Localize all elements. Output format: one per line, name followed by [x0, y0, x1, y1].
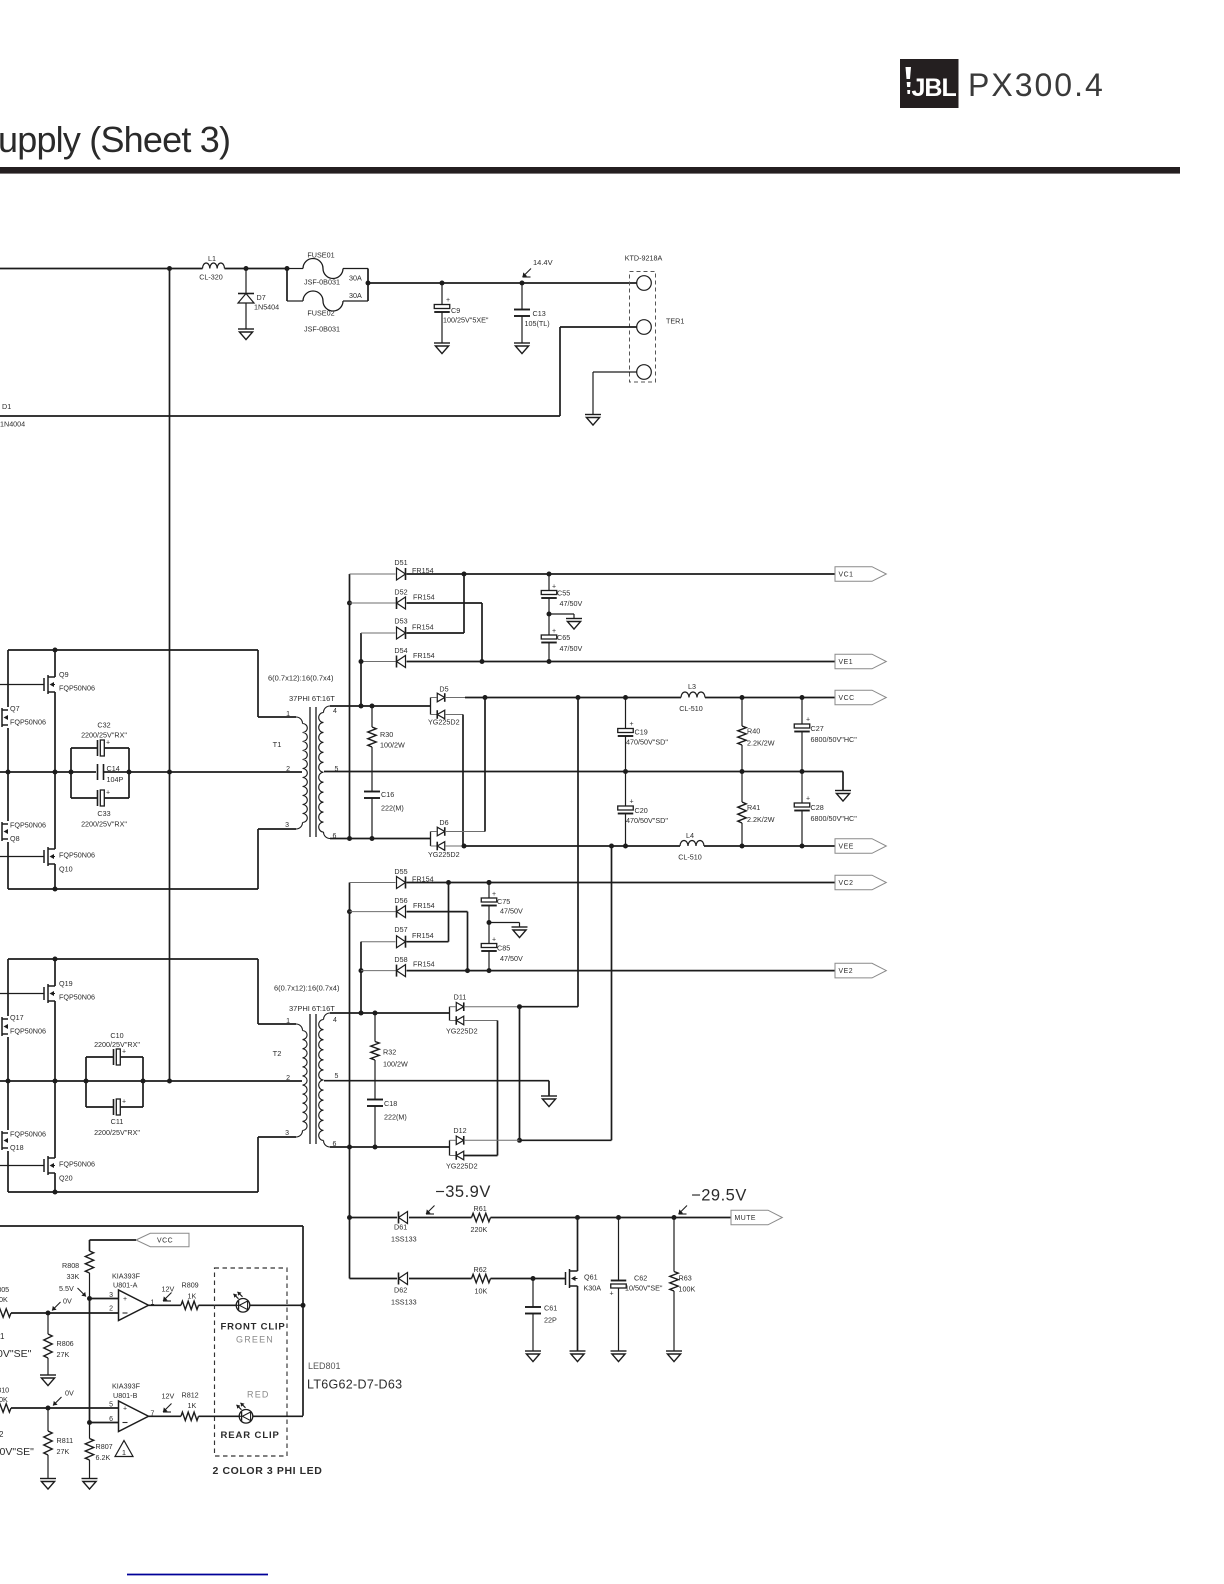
- wire 0V row: [324, 771, 843, 773]
- svg-text:4: 4: [333, 708, 337, 715]
- svg-text:VC1: VC1: [839, 572, 854, 579]
- svg-text:R812: R812: [182, 1391, 199, 1400]
- transistor Q10 FQP50N06: [0, 856, 44, 858]
- svg-text:222(M): 222(M): [384, 1113, 407, 1122]
- svg-text:2: 2: [286, 766, 290, 773]
- ground: [585, 415, 601, 426]
- svg-text:1: 1: [286, 1018, 290, 1025]
- svg-text:C13: C13: [533, 309, 546, 318]
- transistor Q18 FQP50N06: [0, 1131, 8, 1150]
- inductor L3 CL-510: [681, 692, 705, 698]
- JBL logo: [900, 59, 959, 108]
- svg-text:6(0.7x12):16(0.7x4): 6(0.7x12):16(0.7x4): [274, 984, 340, 993]
- svg-text:100/2W: 100/2W: [380, 741, 405, 750]
- diode D56 FR154: [350, 911, 396, 913]
- capacitor C9 100/25V: [440, 281, 445, 286]
- wire D56 to VE2 row: [407, 911, 468, 913]
- svg-text:C10: C10: [110, 1031, 123, 1040]
- capacitor C61 22P: [532, 1279, 534, 1308]
- svg-text:C9: C9: [451, 306, 460, 315]
- wire T2 pin5 row: [324, 1080, 549, 1082]
- svg-text:Q8: Q8: [10, 834, 20, 843]
- resistor R61 220K: [472, 1213, 491, 1221]
- resistor R809 1K: [181, 1301, 199, 1309]
- svg-text:D51: D51: [394, 558, 407, 567]
- svg-text:2: 2: [0, 1430, 4, 1439]
- svg-text:TER1: TER1: [666, 317, 684, 326]
- svg-text:105(TL): 105(TL): [525, 319, 550, 328]
- wire T2 pin4 row: [330, 1012, 450, 1014]
- svg-text:FR154: FR154: [413, 960, 435, 969]
- junction: [87, 1296, 92, 1301]
- wire VCC to D11 output vertical: [577, 698, 579, 1007]
- ground: [541, 1096, 557, 1107]
- svg-text:FQP50N06: FQP50N06: [10, 821, 46, 830]
- wire D55/D56 vertical: [349, 883, 351, 1279]
- capacitor C28 6800/50V: [801, 772, 803, 804]
- svg-text:2: 2: [286, 1075, 290, 1082]
- svg-text:6800/50V"HC": 6800/50V"HC": [811, 735, 858, 744]
- svg-text:37PHI 6T:16T: 37PHI 6T:16T: [289, 694, 335, 703]
- transistor Q19 FQP50N06: [0, 993, 44, 995]
- svg-text:R806: R806: [57, 1339, 74, 1348]
- LED FRONT CLIP green: [236, 1299, 250, 1313]
- svg-text:47/50V: 47/50V: [500, 954, 523, 963]
- svg-text:5: 5: [335, 1073, 339, 1080]
- svg-text:FUSE01: FUSE01: [307, 251, 334, 260]
- svg-text:470/50V"SD": 470/50V"SD": [626, 816, 668, 825]
- junction: [285, 266, 290, 271]
- svg-text:R811: R811: [57, 1436, 74, 1445]
- wire 0V to ground: [842, 772, 844, 791]
- svg-text:FQP50N06: FQP50N06: [59, 993, 95, 1002]
- svg-text:D62: D62: [394, 1286, 407, 1295]
- svg-text:27K: 27K: [57, 1350, 70, 1359]
- svg-text:3: 3: [285, 1130, 289, 1137]
- svg-text:D5: D5: [439, 685, 448, 694]
- svg-text:C75: C75: [497, 897, 510, 906]
- wire op-amp A output: [149, 1304, 181, 1306]
- svg-text:FQP50N06: FQP50N06: [59, 851, 95, 860]
- svg-text:PX300.4: PX300.4: [968, 67, 1105, 103]
- svg-text:R32: R32: [383, 1048, 396, 1057]
- svg-text:C33: C33: [97, 809, 110, 818]
- wire VE1 row: [407, 661, 836, 663]
- wire TER1 pin2 to D1 row: [560, 326, 637, 328]
- svg-text:+: +: [629, 799, 633, 806]
- svg-text:FR154: FR154: [413, 593, 435, 602]
- svg-text:D61: D61: [394, 1223, 407, 1232]
- wire D53/D54 vertical: [360, 633, 362, 706]
- svg-text:KIA393F: KIA393F: [112, 1272, 141, 1281]
- capacitor C55 47/50V: [548, 574, 550, 591]
- svg-text:47/50V: 47/50V: [560, 599, 583, 608]
- svg-text:0V"SE": 0V"SE": [0, 1348, 32, 1360]
- connector VC2: [835, 875, 886, 890]
- svg-text:R807: R807: [96, 1442, 113, 1451]
- svg-text:C55: C55: [557, 589, 570, 598]
- wire D11/D12 output link: [519, 1007, 521, 1141]
- svg-text:C11: C11: [111, 1117, 124, 1126]
- wire C75/C85 midpoint to ground: [489, 922, 520, 924]
- capacitor C11 2200/25V: [86, 1106, 113, 1108]
- svg-text:JSF-0B031: JSF-0B031: [304, 278, 340, 287]
- wire T1 bottom row: [8, 888, 258, 890]
- svg-text:Q10: Q10: [59, 865, 73, 874]
- svg-text:C62: C62: [634, 1274, 647, 1283]
- diode D54 FR154: [361, 661, 396, 663]
- wire T1 pin4 row: [330, 705, 431, 707]
- svg-text:37PHI 6T:16T: 37PHI 6T:16T: [289, 1004, 335, 1013]
- LED REAR CLIP red: [239, 1410, 253, 1424]
- svg-text:D57: D57: [394, 925, 407, 934]
- capacitor C16 222(M): [371, 747, 373, 792]
- svg-text:12V: 12V: [162, 1392, 175, 1401]
- svg-text:12V: 12V: [162, 1285, 175, 1294]
- capacitor C14 104P: [98, 764, 104, 780]
- svg-text:10/50V"SE": 10/50V"SE": [625, 1284, 663, 1293]
- svg-text:2.2K/2W: 2.2K/2W: [747, 815, 775, 824]
- capacitor C13 105(TL): [520, 281, 525, 286]
- wire comparator top rail: [0, 1225, 303, 1227]
- svg-text:D11: D11: [454, 993, 467, 1002]
- junction: [547, 612, 552, 617]
- svg-text:33K: 33K: [67, 1272, 80, 1281]
- wire D12 output to VEE vertical: [520, 1139, 612, 1141]
- svg-text:JSF-0B031: JSF-0B031: [304, 325, 340, 334]
- connector VE1: [835, 654, 886, 669]
- wire op-amp pin6 row: [90, 1422, 119, 1424]
- resistor R30 100/2W: [371, 706, 373, 727]
- svg-text:+: +: [492, 937, 496, 944]
- diode D7 1N5404: [245, 269, 247, 294]
- wire D53 to VC1 row: [407, 632, 465, 634]
- wire VC2 row: [407, 882, 836, 884]
- diode D55 FR154: [350, 882, 396, 884]
- svg-text:+: +: [122, 1049, 126, 1056]
- capacitor C19 470/50V: [625, 698, 627, 729]
- wire VCC flag to R808: [90, 1239, 137, 1241]
- svg-text:CL-510: CL-510: [678, 853, 702, 862]
- svg-text:30A: 30A: [349, 291, 362, 300]
- svg-text:R63: R63: [679, 1274, 692, 1283]
- ground: [40, 1479, 56, 1490]
- svg-text:1N5404: 1N5404: [254, 303, 279, 312]
- op-amp U801-A KIA393F: [119, 1290, 149, 1321]
- svg-text:REAR CLIP: REAR CLIP: [221, 1430, 280, 1441]
- svg-text:upply (Sheet 3): upply (Sheet 3): [0, 119, 230, 160]
- wire op-amp B output: [149, 1415, 181, 1417]
- junction: [244, 266, 249, 271]
- ground: [434, 343, 450, 354]
- connector VCC flag: [136, 1233, 189, 1246]
- svg-text:47/50V: 47/50V: [500, 907, 523, 916]
- svg-text:1K: 1K: [188, 1292, 197, 1301]
- svg-text:1N4004: 1N4004: [0, 420, 25, 429]
- svg-text:+: +: [629, 721, 633, 728]
- svg-text:Q17: Q17: [10, 1013, 24, 1022]
- svg-text:R41: R41: [747, 803, 760, 812]
- svg-text:L3: L3: [688, 682, 696, 691]
- fuse FUSE01 JSF-0B031 30A: [287, 268, 303, 270]
- wire D57 to VC2 row: [407, 941, 449, 943]
- transistor Q9 FQP50N06: [0, 684, 44, 686]
- svg-text:R810: R810: [0, 1386, 9, 1395]
- svg-text:−35.9V: −35.9V: [435, 1183, 491, 1201]
- wire VE2 row: [407, 970, 836, 972]
- capacitor C27 6800/50V: [801, 698, 803, 725]
- wire T2 pin6 row: [330, 1146, 450, 1148]
- svg-text:LT6G62-D7-D63: LT6G62-D7-D63: [307, 1378, 402, 1392]
- diode D53 FR154: [361, 632, 396, 634]
- svg-text:Q7: Q7: [10, 704, 20, 713]
- svg-text:R40: R40: [747, 727, 760, 736]
- resistor R807 6.2K: [89, 1423, 91, 1439]
- diode D57 FR154: [361, 941, 396, 943]
- inductor L1: [203, 263, 225, 269]
- svg-text:L4: L4: [686, 831, 694, 840]
- dual diode D5 YG225D2: [430, 698, 432, 715]
- svg-text:YG225D2: YG225D2: [446, 1162, 478, 1171]
- svg-text:Q18: Q18: [10, 1143, 24, 1152]
- svg-text:C65: C65: [557, 633, 570, 642]
- svg-text:+: +: [806, 717, 810, 724]
- svg-text:YG225D2: YG225D2: [446, 1027, 478, 1036]
- wire VCC row right: [705, 697, 835, 699]
- svg-text:VCC: VCC: [839, 695, 855, 702]
- wire long vertical 14.4V rail: [169, 269, 171, 1082]
- svg-text:27K: 27K: [57, 1447, 70, 1456]
- capacitor C32 2200/25V: [70, 748, 72, 798]
- wire D57/D58 vertical: [360, 942, 362, 1013]
- svg-text:VCC: VCC: [157, 1238, 173, 1245]
- svg-text:1: 1: [0, 1332, 5, 1341]
- wire C55/C65 midpoint to ground: [549, 613, 574, 615]
- wire VEE row right: [704, 845, 835, 847]
- svg-text:0V: 0V: [65, 1389, 74, 1398]
- connector VCC: [835, 690, 886, 705]
- wire D62 row: [409, 1278, 472, 1280]
- transformer T1: [296, 717, 303, 724]
- ground: [40, 1375, 56, 1386]
- junction: [167, 266, 172, 271]
- wire input row 2: [0, 1404, 11, 1412]
- svg-text:VE1: VE1: [839, 659, 854, 666]
- svg-text:2200/25V"RX": 2200/25V"RX": [94, 1128, 140, 1137]
- svg-text:K30A: K30A: [584, 1284, 602, 1293]
- svg-text:Q19: Q19: [59, 979, 73, 988]
- svg-text:+: +: [446, 297, 450, 304]
- svg-text:D55: D55: [394, 867, 407, 876]
- svg-text:D58: D58: [394, 955, 407, 964]
- wire T1 left vertical: [7, 650, 9, 707]
- svg-text:D56: D56: [394, 896, 407, 905]
- diode D52 FR154: [350, 602, 396, 604]
- svg-text:+: +: [552, 584, 556, 591]
- capacitor C33 2200/25V: [71, 797, 97, 799]
- svg-text:T1: T1: [273, 740, 282, 749]
- svg-text:VC2: VC2: [839, 880, 854, 887]
- svg-text:D6: D6: [439, 818, 448, 827]
- svg-text:2 COLOR 3 PHI LED: 2 COLOR 3 PHI LED: [213, 1465, 323, 1477]
- transistor Q8 FQP50N06: [0, 822, 8, 841]
- svg-text:VE2: VE2: [839, 968, 854, 975]
- svg-text:5: 5: [109, 1402, 113, 1409]
- capacitor C20 470/50V: [625, 772, 627, 807]
- ground: [835, 791, 851, 802]
- wire to Q61 gate: [491, 1278, 566, 1280]
- svg-text:FRONT CLIP: FRONT CLIP: [221, 1322, 286, 1333]
- svg-text:C32: C32: [97, 721, 110, 730]
- capacitor C62 10/50V: [618, 1218, 620, 1281]
- svg-text:FQP50N06: FQP50N06: [10, 1027, 46, 1036]
- wire T1 pin6 row: [330, 838, 431, 840]
- svg-text:2200/25V"RX": 2200/25V"RX": [81, 820, 127, 829]
- resistor R40 2.2K/2W: [741, 698, 743, 727]
- svg-text:VEE: VEE: [839, 844, 854, 851]
- svg-text:+: +: [123, 1296, 127, 1303]
- svg-text:FQP50N06: FQP50N06: [59, 684, 95, 693]
- wire VC1 row: [407, 573, 836, 575]
- svg-text:FQP50N06: FQP50N06: [10, 1130, 46, 1139]
- wire T2 top row: [8, 958, 258, 960]
- connector VC1: [835, 567, 886, 582]
- svg-text:47/50V: 47/50V: [560, 644, 583, 653]
- wire T2 left vertical: [7, 959, 9, 1016]
- wire TER1 pin3 to ground: [593, 371, 637, 373]
- svg-text:10K: 10K: [0, 1395, 8, 1404]
- fuse FUSE02 JSF-0B031 30A: [286, 269, 288, 302]
- svg-text:R30: R30: [380, 730, 393, 739]
- transformer T2: [296, 1024, 303, 1031]
- inductor L4 CL-510: [680, 841, 704, 846]
- svg-text:C28: C28: [811, 803, 824, 812]
- svg-text:RED: RED: [247, 1390, 270, 1400]
- wire VEE row: [464, 845, 680, 847]
- svg-text:+: +: [492, 891, 496, 898]
- svg-text:CL-510: CL-510: [679, 704, 703, 713]
- connector VEE: [835, 839, 886, 854]
- svg-text:6.2K: 6.2K: [96, 1453, 111, 1462]
- svg-text:6800/50V"HC": 6800/50V"HC": [811, 814, 858, 823]
- svg-text:2: 2: [109, 1306, 113, 1313]
- wire VCC row: [465, 697, 681, 699]
- junction: [53, 887, 58, 892]
- svg-text:4: 4: [333, 1017, 337, 1024]
- wire T2 mid row: [0, 1080, 302, 1082]
- junction: [366, 281, 371, 286]
- svg-text:1: 1: [286, 711, 290, 718]
- svg-text:R809: R809: [182, 1281, 199, 1290]
- connector MUTE: [731, 1210, 782, 1225]
- svg-text:U801-B: U801-B: [113, 1391, 138, 1400]
- resistor R62 10K: [472, 1274, 491, 1282]
- svg-text:222(M): 222(M): [381, 804, 404, 813]
- svg-text:C19: C19: [635, 728, 648, 737]
- resistor R32 100/2W: [374, 1013, 376, 1042]
- wire D51/D52 vertical: [349, 574, 351, 839]
- dual diode D6 YG225D2: [430, 832, 432, 847]
- svg-text:MUTE: MUTE: [735, 1215, 757, 1222]
- wire R809 to LED: [199, 1304, 237, 1306]
- svg-text:D52: D52: [394, 588, 407, 597]
- wire R808 rail to pin6: [89, 1299, 91, 1423]
- svg-text:CL-320: CL-320: [199, 273, 223, 282]
- svg-text:Q20: Q20: [59, 1174, 73, 1183]
- svg-text:JBL: JBL: [912, 74, 957, 102]
- ground: [570, 1351, 586, 1362]
- transistor Q7 FQP50N06: [0, 708, 8, 727]
- svg-text:Q9: Q9: [59, 670, 69, 679]
- svg-text:104P: 104P: [107, 775, 124, 784]
- wire T1 top row: [8, 649, 258, 651]
- dual diode D11 YG225D2: [449, 1007, 451, 1021]
- ground: [238, 329, 254, 340]
- resistor R63 100K: [673, 1218, 675, 1272]
- wire D11 lower to D12 lower: [497, 1021, 499, 1156]
- wire op-amp pin3 row: [90, 1298, 119, 1300]
- svg-text:2.2K/2W: 2.2K/2W: [747, 739, 775, 748]
- title rule: [0, 167, 1180, 174]
- svg-text:10K: 10K: [475, 1287, 488, 1296]
- ground: [525, 1351, 541, 1362]
- svg-text:R62: R62: [474, 1265, 487, 1274]
- svg-text:GREEN: GREEN: [236, 1335, 274, 1345]
- capacitor C75 47/50V: [487, 880, 492, 885]
- svg-text:U801-A: U801-A: [113, 1281, 138, 1290]
- svg-text:-0V"SE": -0V"SE": [0, 1446, 34, 1458]
- svg-text:D12: D12: [453, 1126, 466, 1135]
- connector VE2: [835, 963, 886, 978]
- svg-text:T2: T2: [273, 1049, 282, 1058]
- svg-text:+: +: [106, 740, 110, 747]
- svg-text:100/2W: 100/2W: [383, 1060, 408, 1069]
- svg-text:LED801: LED801: [308, 1361, 341, 1371]
- svg-text:5.5V: 5.5V: [59, 1284, 74, 1293]
- transistor Q20 FQP50N06: [0, 1165, 44, 1167]
- svg-text:FR154: FR154: [413, 651, 435, 660]
- capacitor C85 47/50V: [488, 923, 490, 944]
- ground: [611, 1351, 627, 1362]
- junction: [53, 648, 58, 653]
- wire T1 mid row: [0, 771, 96, 773]
- svg-text:C27: C27: [811, 724, 824, 733]
- wire fuse output to TER1: [368, 282, 637, 284]
- svg-text:+: +: [106, 790, 110, 797]
- svg-text:1SS133: 1SS133: [391, 1235, 417, 1244]
- svg-text:KIA393F: KIA393F: [112, 1382, 141, 1391]
- svg-text:2200/25V"RX": 2200/25V"RX": [81, 731, 127, 740]
- svg-text:FQP50N06: FQP50N06: [10, 718, 46, 727]
- wire VEE to D12 output vertical: [611, 846, 613, 1140]
- svg-text:FR154: FR154: [412, 931, 434, 940]
- diode D51 FR154: [350, 573, 396, 575]
- svg-text:220K: 220K: [471, 1225, 488, 1234]
- capacitor C10 2200/25V: [85, 1057, 87, 1107]
- svg-text:C14: C14: [107, 764, 120, 773]
- svg-text:10K: 10K: [0, 1295, 8, 1304]
- transistor Q61 K30A: [566, 1269, 578, 1288]
- junctions T1 mid row: [6, 770, 11, 775]
- svg-text:D54: D54: [394, 646, 407, 655]
- svg-text:FUSE02: FUSE02: [307, 309, 334, 318]
- svg-text:D1: D1: [2, 402, 11, 411]
- wire T1 pin1 link: [257, 650, 259, 717]
- svg-text:C18: C18: [384, 1099, 397, 1108]
- wire mute row right: [491, 1217, 732, 1219]
- wire T2 pin1 link: [257, 959, 259, 1024]
- wire D1 row: [0, 415, 560, 417]
